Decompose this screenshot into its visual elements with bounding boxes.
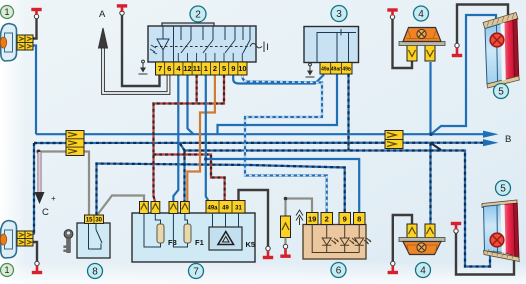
terminal (red T) feeding switch pin 7 [117,4,127,15]
label circle 5 (bottom) [496,181,511,196]
svg-text:30: 30 [95,218,102,224]
connector block (3-way) on main bus left [66,131,84,156]
svg-text:1: 1 [4,7,9,17]
repeater lamp 4 (top): terminal red T [387,8,397,19]
ground (red) below cluster connector [280,238,290,258]
wire: blue switch pin 9 to relay 3 pin 49a [233,75,324,84]
svg-text:5: 5 [498,87,504,98]
label circle 5 (top) [494,84,509,99]
svg-text:2: 2 [195,10,201,21]
switch 2 interior: mechanical dashed link [155,46,250,48]
svg-text:5: 5 [500,184,506,195]
wire: gray from bus connector to junction with C arrow [39,150,67,152]
wire: main bus line2 (blue/black striped) to arrow B [34,139,499,146]
COMPONENTS [0,4,358,77]
svg-text:49в: 49в [342,67,351,73]
ground (red) of lamp 1 bottom [32,261,42,274]
switch 2 interior: linkage squiggle end symbol [250,42,268,53]
ground (red) of rear lamp 5 top [452,43,462,57]
terminal (red T) above lamp 1 [31,8,41,19]
lamp 1 front turn signal (top left) [0,24,16,62]
wire: striped tap from bus line2 down to repeater 4 bottom [429,143,431,225]
svg-text:K5: K5 [246,240,256,249]
ignition switch 8 pins 15 30 [85,215,104,224]
wire: black fuse box pin 31 to ground [239,190,269,247]
svg-text:49a: 49a [321,67,330,73]
wire: gray cluster connector down to ground [284,236,286,245]
fuse box 7 chevron pins P1-P4 [140,202,190,214]
svg-text:49a: 49a [207,206,218,212]
svg-text:31: 31 [235,206,242,212]
fuse F3 [144,213,177,247]
svg-text:A: A [99,9,106,20]
instrument cluster 6 box [303,225,366,260]
wire: blue switch pin 1 to fuse box pin 49a [206,75,209,201]
svg-text:6: 6 [336,266,342,277]
switch 2 pin row: pins 7 6 4 12 11 1 2 5 9 10 [156,62,248,75]
wire: striped relay 3 pin 49v down to feeder [347,74,349,150]
wire: black repeater 4 top to terminal [393,18,413,68]
wire: gray from bus connector right to ignition pin 15 [84,152,89,216]
lamp 1 front turn signal (bottom left) [0,221,16,259]
svg-text:4: 4 [420,266,426,277]
label circle 2 [190,6,206,22]
switch unit 2 (steering column switch) box [148,23,256,62]
wire: striped branch from feeder to fuse box pin P4 [183,151,185,202]
connector left of cluster 6 [281,216,291,238]
wire: black rear lamp 5 bottom to terminal [456,233,514,275]
label circle 3 [331,6,347,22]
svg-text:1: 1 [204,64,208,73]
wire: blue branch from switch pin 1 wire to cluster pin 8 [204,157,359,213]
switch 2 interior: contact blades [178,26,250,62]
terminal (red T) near rear lamp 5 bottom [451,222,461,233]
wire: white outlined wire from arrow A to switch pin 6 [103,46,169,93]
wire: black from rear lamp 5 top to ground [457,5,508,45]
relay K5 [209,213,255,250]
wire: striped from ignition pin 30 to cluster pin 9 [97,164,345,216]
wire: blue from lamp1 top connector down to main bus line1 [33,46,36,135]
svg-text:10: 10 [238,64,246,73]
svg-text:11: 11 [193,64,201,73]
relay 3 (turn signal flasher) box [304,27,359,63]
label circle 7 [189,264,204,279]
connector of lamp 1 bottom [17,231,33,246]
svg-text:3: 3 [336,9,342,20]
svg-text:8: 8 [92,267,98,278]
ignition switch 8 box [77,223,110,258]
wire: orange switch pin 2 to fuse box pin P4 [187,75,215,202]
label circle 8 [88,264,103,279]
wire: main bus line1 (solid blue) to arrow B [36,131,499,138]
wire: pink lead to arrow C [35,152,45,204]
relay 3 pin row: 49a 49ag 49v [320,63,352,75]
svg-text:6: 6 [167,64,171,73]
wire: red/black striped switch pin 5 to fuse box pin P2 [154,75,225,202]
svg-text:B: B [505,134,511,145]
label circle 4 (bottom) [416,263,431,278]
repeater lamp 4 (bottom) body [399,224,445,255]
svg-text:19: 19 [308,215,316,224]
svg-text:7: 7 [193,267,199,278]
wire: blue switch pin 4 down to fuse box pin P3 [173,75,178,202]
cluster 6 interior: indicator lamps [312,225,371,253]
cluster 6 pins 19 2 9 8 [307,213,366,225]
label circle 1 (top) [1,6,14,19]
ground symbol next to cluster pin 19 [296,210,303,225]
wire: black lamp1 top to terminal [33,18,37,39]
svg-text:2: 2 [213,64,217,73]
svg-text:F3: F3 [168,238,177,247]
wire: blue switch pin 12 to bus line1 [188,75,194,134]
ground (red) of fuse box pin 31 [263,246,273,259]
ground symbol left of relay 3 pins [306,63,315,77]
svg-text:15: 15 [86,218,93,224]
ground symbol below switch 2 left [139,60,148,74]
fuse F1 [173,213,203,247]
label circle 6 [331,263,346,278]
svg-text:1: 1 [4,265,9,275]
svg-text:+: + [51,194,56,203]
wire: striped feeder line from bus line2 to rear lamp bottom right [180,144,490,267]
wire: black lamp1 bottom to ground [33,242,37,262]
svg-text:F1: F1 [195,238,204,247]
svg-text:8: 8 [357,215,361,224]
rear lamp 5 (bottom) body [482,200,519,262]
wire: striped diagonal joint bus line2 to feeder [432,144,442,151]
wire: red/black striped branch to relay pin 49 [154,155,225,202]
svg-text:4: 4 [418,9,424,20]
repeater lamp 4 (top) body [399,28,445,62]
wire: gray from ignition pin 30 to fuse box pin P1 [98,196,144,215]
node C label and + [42,194,56,218]
fuse/relay box 7 [132,213,255,262]
fuse box 7 pins 49a 49 31 [206,201,245,214]
wire: striped switch pin 10 loop to cluster pin 2 [242,75,326,215]
svg-text:49: 49 [222,206,229,212]
wire: black from terminal to switch pin 7 [122,15,160,86]
node A arrow [99,9,108,48]
svg-text:2: 2 [325,215,329,224]
label circle 4 (top) [414,6,429,21]
wire: gray from cluster connector up to pin 19 [284,197,312,217]
svg-text:12: 12 [183,64,191,73]
svg-text:C: C [42,207,49,218]
wire: red/black striped switch pin 11 tap [196,75,198,104]
switch 2 interior: indicator lamp symbol [150,26,169,62]
svg-text:9: 9 [231,64,235,73]
label circle 1 (bottom) [1,264,14,277]
svg-text:5: 5 [222,64,226,73]
svg-text:9: 9 [343,215,347,224]
ground (red) of repeater 4 bottom [388,261,398,274]
svg-text:49aг: 49aг [331,67,341,73]
wire: blue from rear lamp 5 top to bus junction [431,15,496,134]
wire: blue from repeater 4 top down to bus junction [429,62,431,134]
key symbol [63,230,73,253]
wire: black repeater 4 bottom to ground [393,215,412,262]
connector of lamp 1 top [17,35,33,50]
svg-text:7: 7 [158,64,162,73]
wire: striped riser to lamp1 bottom [33,143,35,235]
node B label [505,134,511,145]
node: bus junction dot [429,132,433,136]
switch 2 interior: lamp cell divider [173,26,175,62]
wire: blue relay 3 pin 49ag down to bus line1 [218,74,338,134]
connector block (2-way) on main bus right [385,131,403,149]
node: junction dot of C branch [37,150,41,154]
rear lamp 5 (top) body [483,13,519,89]
